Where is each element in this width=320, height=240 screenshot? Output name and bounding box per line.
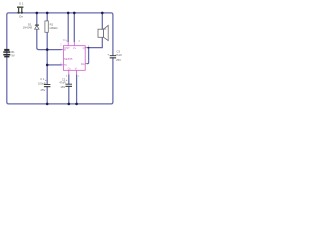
svg-text:V+: V+ — [73, 46, 77, 50]
svg-text:On: On — [19, 15, 23, 19]
svg-text:25V: 25V — [116, 58, 121, 62]
svg-text:25V: 25V — [41, 88, 46, 92]
svg-text:100kΩ: 100kΩ — [49, 26, 57, 30]
svg-text:V-: V- — [75, 67, 78, 71]
svg-text:+: + — [66, 78, 68, 82]
svg-text:47uF/: 47uF/ — [59, 81, 66, 85]
svg-text:Q: Q — [83, 46, 85, 50]
svg-text:C3: C3 — [117, 50, 121, 54]
svg-text:+: + — [45, 78, 47, 82]
svg-text:47uF/: 47uF/ — [115, 53, 122, 57]
svg-text:NE555: NE555 — [64, 57, 73, 61]
svg-text:Tr: Tr — [64, 48, 66, 52]
svg-text:LS1: LS1 — [102, 27, 107, 31]
svg-text:1N4148: 1N4148 — [23, 25, 33, 29]
svg-text:+: + — [107, 52, 109, 56]
svg-text:S 1: S 1 — [19, 2, 24, 6]
svg-text:9V: 9V — [11, 53, 14, 57]
svg-text:16V: 16V — [60, 85, 65, 89]
svg-text:100uF/: 100uF/ — [38, 81, 46, 85]
